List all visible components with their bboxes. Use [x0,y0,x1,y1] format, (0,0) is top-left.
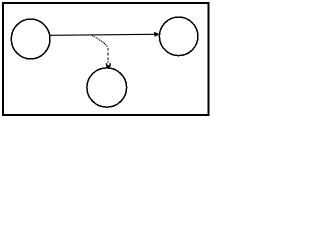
dotted edge to bottom circle (vertical dashes) [108,48,109,63]
node circle bottom [87,68,127,107]
dotted edge to bottom circle (curved segment dots) [92,35,108,47]
node circle right [159,17,198,56]
solid arrowhead at right circle [154,32,159,36]
node circle left [11,19,50,59]
dotted arrowhead at bottom circle [106,63,111,68]
solid edge left-to-right [50,34,155,35]
outer frame rectangle [3,3,209,115]
